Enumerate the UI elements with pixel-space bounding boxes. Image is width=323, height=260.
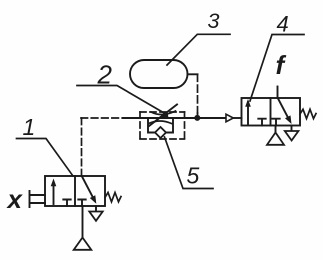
leader line for label 4 [250,35,304,102]
wire: pilot arrow tip to valve 4 [233,117,241,119]
leader line for label 3 [167,34,230,65]
throttle arcs of adjustable restrictor 2 [151,111,176,115]
leader line for label 2 [77,86,166,114]
valve 4: exhaust triangle (apex down) [285,131,299,141]
wire: dashed pilot line from valve 1 output, vertical run [81,118,83,176]
flow control valve 2: dashed enclosure box [140,112,185,139]
valve 4: exhaust stem [291,126,293,132]
arrowhead of leader 2 on restrictor [156,112,169,119]
check valve 5 (diamond) [155,127,166,138]
valve 1: blocked port T in left square [63,200,70,207]
leader line for label 5 [165,137,214,189]
valve 4: output port stub (f) [277,87,279,99]
svg-text:4: 4 [277,12,289,37]
valve 1: blocked port T in right square [78,200,85,207]
valve 1: position divider [74,176,76,206]
svg-text:f: f [276,50,287,80]
leader line for label 1 [17,139,74,177]
valve 4: position divider [270,98,272,126]
flow control valve 2: bypass loop [148,118,173,133]
wire: main signal line through flow control valve to junction [148,117,197,119]
valve 4: flow arrow in left square [247,102,249,124]
valve 1: manual actuator bracket [30,191,46,207]
valve 1: flow arrow in left square [53,184,55,204]
oblique adjustment arrow of restrictor 2 [149,105,177,127]
reservoir 3 (stadium-shaped air receiver) [130,60,188,88]
wire: reservoir outlet stub [188,73,198,75]
valve 1: diagonal exhaust path in right square [82,177,94,200]
svg-text:1: 1 [23,114,36,140]
valve 1: return spring [105,193,121,202]
valve 1: 3/2-way valve body [45,176,105,206]
wire: main signal line into flow control valve [123,117,148,119]
valve 4: supply triangle (apex up) [267,133,284,145]
valve 4: return spring [300,109,316,118]
valve 4: blocked port T in left square [258,119,265,126]
wire: main signal line from junction to pilot arrow of valve 4 [197,117,226,119]
wire: dashed branch from reservoir down to junction [197,74,199,113]
svg-text:x: x [6,184,24,214]
wire: dashed pilot line from valve 1 output, horizontal run [81,117,123,119]
valve 1: supply triangle (apex up) [74,238,92,250]
svg-text:5: 5 [187,162,200,188]
valve 4: blocked port T in right square [272,119,279,126]
valve 4: supply stem [275,126,277,133]
svg-text:3: 3 [208,9,220,33]
node: junction dot [194,115,200,121]
valve 4: 3/2-way valve body [242,98,301,126]
valve 1: exhaust stem [95,206,97,212]
valve 4: diagonal exhaust path in right square [278,99,289,120]
svg-text:2: 2 [97,60,113,90]
pilot arrow into valve 4 (open triangle) [226,114,233,122]
valve 1: exhaust triangle (apex down) [89,212,102,221]
valve 1: supply line down [82,206,84,238]
